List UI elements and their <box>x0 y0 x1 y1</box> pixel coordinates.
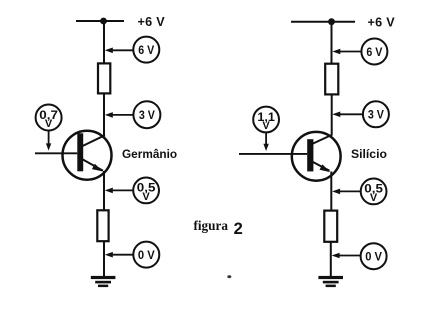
probe 6V right: pointer wire <box>339 51 362 53</box>
wire R3 to collector junction right <box>331 94 333 135</box>
probe 0,7V: arrowhead down <box>46 143 51 150</box>
svg-text:V: V <box>262 120 270 132</box>
wire collector supply segment left <box>103 21 105 64</box>
probe 0V left: meter circle <box>133 242 159 268</box>
svg-text:Silício: Silício <box>351 147 387 161</box>
svg-text:6 V: 6 V <box>366 45 383 59</box>
ground left bar1 <box>91 276 116 279</box>
probe 0V right: pointer wire <box>338 255 360 257</box>
probe 0,5V right: arrowhead <box>332 189 340 195</box>
probe 0,5V left: pointer wire <box>111 189 133 191</box>
transistor Q1 emitter arrowhead <box>92 164 103 172</box>
svg-text:6 V: 6 V <box>138 43 155 57</box>
probe 1,1V base right: meter circle <box>253 107 279 133</box>
svg-text:+6 V: +6 V <box>368 16 396 30</box>
transistor Q2 circle <box>292 132 341 181</box>
svg-text:figura: figura <box>194 218 229 233</box>
wire collector supply segment right <box>331 22 333 64</box>
svg-text:3 V: 3 V <box>368 108 385 122</box>
probe 0,5V left: meter circle <box>133 178 159 204</box>
probe 0V right: meter circle <box>361 243 387 269</box>
resistor R4 (emitter, right) <box>324 211 337 242</box>
transistor Q1 circle <box>63 131 112 180</box>
svg-text:3 V: 3 V <box>139 108 156 122</box>
probe 6V right: meter circle <box>361 39 387 65</box>
transistor Q2 emitter lead <box>312 162 330 171</box>
node junction dot right +6V <box>328 18 335 25</box>
ground left bar2 <box>95 281 111 284</box>
transistor Q1 base bar <box>77 133 83 171</box>
probe 3V left: pointer wire <box>111 114 133 116</box>
svg-text:V: V <box>45 118 53 130</box>
transistor Q1 collector lead <box>82 135 106 146</box>
probe 1,1V: arrowhead down <box>263 144 268 151</box>
svg-text:V: V <box>370 192 378 204</box>
scan speck <box>227 275 231 278</box>
probe 3V left: meter circle <box>133 101 160 128</box>
wire R1 to collector junction left <box>103 93 105 135</box>
ground right bar1 <box>318 276 343 279</box>
probe 6V left: arrowhead <box>105 48 113 54</box>
probe 6V left: pointer wire <box>111 49 134 51</box>
wire base lead right <box>239 153 307 155</box>
ground right bar2 <box>323 281 339 284</box>
probe 0,5V right: pointer wire <box>338 190 361 192</box>
probe 3V right: arrowhead <box>332 112 340 118</box>
wire R4 to ground right <box>330 242 332 277</box>
probe 3V right: meter circle <box>363 101 389 127</box>
probe 6V left: meter circle <box>133 37 159 63</box>
probe 0,5V right: meter circle <box>361 179 387 205</box>
probe 0,7V: pointer wire down <box>48 131 50 145</box>
transistor Q2 emitter arrowhead <box>320 164 331 172</box>
node junction dot left +6V <box>100 18 107 25</box>
svg-text:2: 2 <box>234 220 243 238</box>
probe 3V right: pointer wire <box>339 113 363 115</box>
wire top rail right <box>291 21 355 23</box>
svg-text:0 V: 0 V <box>138 248 156 262</box>
resistor R3 (collector, right) <box>325 64 338 95</box>
wire emitter to R4 right <box>330 172 332 212</box>
svg-text:0 V: 0 V <box>365 250 383 264</box>
transistor Q1 emitter lead <box>82 159 104 171</box>
probe 0,5V left: arrowhead <box>105 188 113 194</box>
wire top rail left <box>76 20 124 22</box>
probe 6V right: arrowhead <box>332 49 340 55</box>
transistor Q2 base bar <box>307 139 313 171</box>
probe 0,7V base left: meter circle <box>36 105 62 131</box>
svg-text:Germânio: Germânio <box>122 147 177 161</box>
probe 3V left: arrowhead <box>105 112 113 118</box>
resistor R2 (emitter, left) <box>97 210 108 241</box>
probe 0V left: arrowhead <box>105 252 113 258</box>
probe 1,1V: pointer wire down <box>265 132 267 145</box>
svg-text:+6 V: +6 V <box>138 15 166 29</box>
svg-text:V: V <box>142 191 150 203</box>
ground left bar3 <box>98 285 108 288</box>
wire R2 to ground left <box>103 241 105 277</box>
wire base lead left <box>35 152 77 154</box>
resistor R1 (collector, left) <box>98 63 110 93</box>
probe 0V right: arrowhead <box>332 253 340 259</box>
wire emitter to R2 left <box>103 171 105 211</box>
ground right bar3 <box>326 285 336 288</box>
transistor Q2 collector lead <box>312 135 332 144</box>
probe 0V left: pointer wire <box>111 254 133 256</box>
